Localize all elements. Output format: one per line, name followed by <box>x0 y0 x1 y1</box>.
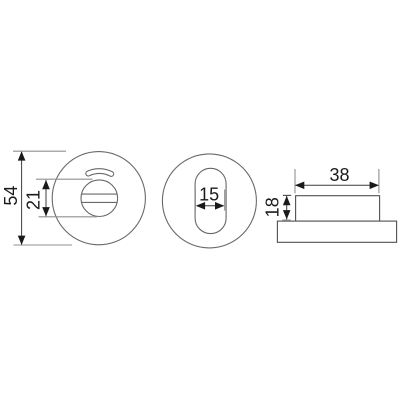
dimension 18: dimension line <box>286 196 288 220</box>
cylinder keyhole oval <box>195 168 226 233</box>
rosette front view: outer circle (WC turn) <box>52 152 145 245</box>
dimension 15: right extension line <box>224 190 226 211</box>
rosette side view: base plate rectangle <box>277 221 396 242</box>
dimension 54: top extension line <box>13 150 66 152</box>
svg-text:21: 21 <box>23 190 43 210</box>
dimension 38: dimension line <box>296 184 379 186</box>
dimension 38: left arrowhead <box>295 182 304 190</box>
cylinder rosette front view: outer circle <box>162 154 256 248</box>
thumbturn inner circle <box>81 180 118 217</box>
thumbturn slot upper line <box>82 193 118 195</box>
dimension 18: bottom arrowhead <box>283 210 291 219</box>
dimension 21: bottom extension line <box>39 216 98 218</box>
dimension 54: top arrowhead <box>18 151 26 160</box>
dimension 21: bottom arrowhead <box>42 207 50 216</box>
dimension 38: right extension line <box>378 169 380 193</box>
svg-text:15: 15 <box>199 184 219 204</box>
dimension 54: bottom extension line <box>14 244 73 246</box>
dimension 54: bottom arrowhead <box>18 236 26 245</box>
svg-text:54: 54 <box>1 186 21 206</box>
dimension 15: left extension line <box>194 190 196 211</box>
dimension 15: dimension line <box>197 205 224 207</box>
dimension 18: top extension line <box>283 194 291 196</box>
indicator crescent above thumbturn <box>86 169 114 177</box>
dimension 21: top arrowhead <box>42 180 50 189</box>
dimension 18: top arrowhead <box>283 196 291 205</box>
dimension 15: left arrowhead <box>196 202 205 210</box>
dimension 15: right arrowhead <box>215 202 224 210</box>
svg-text:18: 18 <box>263 197 283 217</box>
dimension 21: dimension line <box>45 180 47 216</box>
rosette side view: cap rectangle <box>296 196 380 221</box>
dimension 21: top extension line <box>36 178 93 180</box>
dimension 38: left extension line <box>294 169 296 193</box>
dimension 38: right arrowhead <box>370 182 379 190</box>
svg-text:38: 38 <box>329 165 349 185</box>
dimension 54: dimension line <box>21 152 23 245</box>
dimension 18: bottom extension line <box>282 219 291 221</box>
thumbturn slot lower line <box>82 201 118 203</box>
